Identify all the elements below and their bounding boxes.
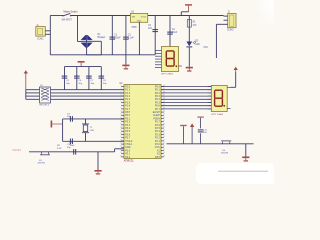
cap bank top rail bbox=[65, 66, 102, 68]
wire S4 to ground bbox=[245, 144, 247, 157]
net label VCC stub bbox=[203, 47, 208, 49]
svg-text:22: 22 bbox=[163, 143, 165, 145]
svg-text:13: 13 bbox=[120, 123, 122, 125]
resistor R2 label bbox=[57, 145, 62, 150]
wire bus2 left bbox=[26, 92, 40, 94]
svg-text:20: 20 bbox=[120, 146, 122, 148]
svg-text:VCC: VCC bbox=[203, 47, 208, 49]
svg-text:4: 4 bbox=[121, 95, 122, 97]
power bar A bbox=[180, 125, 186, 144]
LED D2 bbox=[186, 41, 200, 48]
svg-text:LED: LED bbox=[195, 44, 200, 46]
capacitor C10 bbox=[67, 139, 73, 149]
capacitor C5 decoupling bbox=[62, 67, 71, 90]
svg-text:5: 5 bbox=[121, 98, 122, 100]
wire bottom net bbox=[167, 143, 254, 145]
connector J1 (AC input) bbox=[36, 25, 51, 40]
capacitor C2 bbox=[123, 16, 134, 55]
svg-text:DPY 7-SEG: DPY 7-SEG bbox=[212, 114, 224, 116]
wire bridge negative to rail bbox=[86, 47, 88, 55]
switch S1 mains bbox=[62, 10, 79, 21]
svg-text:25: 25 bbox=[163, 133, 165, 135]
svg-text:6: 6 bbox=[121, 101, 122, 103]
power port VCC left bbox=[24, 70, 28, 89]
svg-text:8.2K: 8.2K bbox=[57, 148, 62, 150]
svg-text:24: 24 bbox=[163, 136, 165, 138]
svg-text:22: 22 bbox=[120, 152, 122, 154]
power port VCC display2 bbox=[234, 67, 238, 72]
svg-text:10: 10 bbox=[120, 114, 122, 116]
svg-text:100uF: 100uF bbox=[114, 38, 121, 40]
svg-text:23: 23 bbox=[120, 155, 122, 157]
resistor R1 bbox=[187, 16, 197, 42]
svg-text:19: 19 bbox=[120, 143, 122, 145]
wire bus3 right bbox=[51, 95, 125, 97]
svg-text:Bridge1: Bridge1 bbox=[98, 36, 107, 39]
power port VCC top bbox=[185, 4, 192, 12]
svg-text:7: 7 bbox=[121, 104, 122, 106]
wire bus1 right bbox=[51, 89, 125, 91]
wire LED to ground bbox=[188, 47, 190, 66]
display DS1 7-segment bbox=[155, 47, 182, 76]
svg-text:10uF: 10uF bbox=[172, 32, 178, 34]
svg-text:12: 12 bbox=[120, 120, 122, 122]
svg-text:SW-PB: SW-PB bbox=[221, 152, 229, 154]
svg-text:CON3: CON3 bbox=[227, 30, 234, 32]
wire bus2 right bbox=[51, 92, 125, 94]
svg-text:Mains Switch: Mains Switch bbox=[64, 10, 79, 13]
svg-text:27: 27 bbox=[163, 127, 165, 129]
wire power ground rail bbox=[87, 54, 156, 56]
svg-text:SW-SPST: SW-SPST bbox=[62, 20, 73, 22]
svg-text:23: 23 bbox=[163, 139, 165, 141]
svg-text:VIN: VIN bbox=[132, 16, 136, 18]
wire crystal left rail bbox=[62, 119, 64, 141]
wire VCC to DS2 bbox=[231, 72, 236, 87]
svg-text:12M: 12M bbox=[90, 130, 94, 132]
svg-text:10uF: 10uF bbox=[70, 145, 76, 147]
capacitor C7 decoupling bbox=[86, 67, 95, 90]
display DS2 7-segment bbox=[208, 85, 231, 115]
regulator U1 7805 bbox=[130, 12, 147, 29]
wire J1 bottom to bridge bbox=[50, 41, 101, 55]
svg-text:32: 32 bbox=[163, 111, 165, 113]
svg-text:17: 17 bbox=[120, 136, 122, 138]
bridge rectifier D1 bbox=[81, 34, 106, 48]
svg-text:31: 31 bbox=[163, 114, 165, 116]
svg-text:VOUT: VOUT bbox=[141, 16, 148, 18]
svg-text:GND: GND bbox=[137, 20, 142, 22]
wire AC top rail bbox=[50, 15, 223, 17]
switch S4 bbox=[221, 141, 231, 155]
capacitor C3 bbox=[148, 16, 158, 55]
svg-text:14: 14 bbox=[120, 127, 122, 129]
net label RESET bbox=[13, 148, 22, 152]
ground below C2 bbox=[122, 55, 129, 70]
crystal Y1 bbox=[82, 119, 94, 141]
capacitor C12 bbox=[197, 116, 207, 143]
wire XTAL bottom bbox=[63, 140, 124, 142]
switch S3 reset bbox=[38, 152, 51, 165]
wire bus chip to DS2 bbox=[161, 87, 211, 109]
microcontroller U2 AT89C51 bbox=[120, 83, 165, 163]
wire VCC to rail bbox=[181, 12, 188, 16]
svg-text:SW-PB: SW-PB bbox=[38, 163, 46, 165]
connector J2 output bbox=[224, 12, 237, 32]
capacitor C11 series bbox=[70, 142, 77, 154]
title block white corner bbox=[196, 163, 274, 184]
svg-text:0.1uF: 0.1uF bbox=[128, 38, 134, 40]
svg-text:RST: RST bbox=[155, 156, 160, 159]
capacitor C6 decoupling bbox=[74, 67, 83, 90]
svg-text:16: 16 bbox=[120, 133, 122, 135]
capacitor C1 bbox=[110, 16, 122, 55]
wire reset bbox=[29, 149, 124, 152]
svg-text:CON2: CON2 bbox=[37, 38, 44, 40]
svg-text:30: 30 bbox=[163, 117, 165, 119]
capacitor C4 display feed bbox=[167, 16, 178, 47]
power bar B bbox=[190, 123, 194, 143]
wire bus1 left bbox=[26, 89, 40, 91]
svg-text:SW DIP-4: SW DIP-4 bbox=[39, 105, 50, 107]
svg-text:1: 1 bbox=[121, 85, 122, 87]
ground reset bbox=[94, 170, 101, 175]
wire switch to bridge bbox=[78, 16, 82, 42]
wire reset to ground bbox=[97, 152, 99, 170]
white corner top-right bbox=[238, 0, 274, 52]
wire bus left vertical bbox=[25, 90, 27, 100]
wire bus4 right bbox=[51, 98, 125, 100]
svg-text:3: 3 bbox=[121, 91, 122, 93]
svg-text:20: 20 bbox=[163, 149, 165, 151]
wire bus4 left bbox=[26, 98, 40, 100]
svg-text:21: 21 bbox=[163, 146, 165, 148]
wire U1 ground stem bbox=[138, 22, 140, 55]
capacitor C8 decoupling bbox=[99, 67, 108, 90]
wire XTAL top bbox=[63, 118, 124, 120]
wire bus3 left bbox=[26, 95, 40, 97]
svg-text:7805: 7805 bbox=[131, 27, 137, 29]
svg-text:9: 9 bbox=[121, 111, 122, 113]
svg-text:19: 19 bbox=[163, 152, 165, 154]
svg-text:8: 8 bbox=[121, 107, 122, 109]
ground bottom right bbox=[242, 157, 249, 162]
wire J2 pin3 net stub bbox=[216, 24, 223, 58]
svg-text:28: 28 bbox=[163, 123, 165, 125]
ground bar above cap bank bbox=[78, 61, 85, 67]
svg-text:RESET: RESET bbox=[13, 148, 22, 152]
svg-text:18: 18 bbox=[163, 155, 165, 157]
svg-text:2: 2 bbox=[121, 88, 122, 90]
svg-text:29: 29 bbox=[163, 120, 165, 122]
capacitor C9 bbox=[67, 113, 73, 121]
DIP switch S2 bbox=[39, 85, 50, 106]
wire J1 vertical riser bbox=[49, 16, 51, 55]
ground crystal bbox=[51, 121, 63, 128]
svg-text:DPY 7-SEG: DPY 7-SEG bbox=[161, 73, 173, 75]
ground below LED bbox=[186, 67, 193, 72]
svg-text:26: 26 bbox=[163, 130, 165, 132]
svg-text:15: 15 bbox=[120, 130, 122, 132]
svg-text:AT89C51: AT89C51 bbox=[124, 159, 135, 162]
